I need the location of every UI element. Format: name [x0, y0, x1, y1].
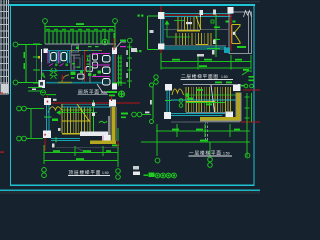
legend green dash [144, 175, 149, 176]
D red tick below plan [117, 141, 118, 147]
svg-text:1:50: 1:50 [221, 75, 228, 79]
svg-text:二层楼梯平面图: 二层楼梯平面图 [181, 73, 218, 80]
plant symbol [50, 68, 57, 79]
B annex outline grey [229, 12, 252, 54]
B inner section line green [215, 14, 217, 57]
B annex red drop [230, 15, 232, 51]
B column NW [158, 12, 165, 19]
D bottom landing edge yellow [62, 133, 90, 135]
B top wall cyan pair [164, 13, 232, 16]
cyan pipe beside [82, 55, 84, 83]
column A east-top [112, 48, 117, 55]
drain bubble cross [119, 93, 124, 94]
B lower landing edge yellow [196, 44, 208, 46]
D axis bubble west-bottom pair [17, 136, 22, 141]
B dim texts [172, 59, 242, 67]
toilet fixture 1 [51, 53, 57, 61]
C bottom landing white line [186, 111, 232, 113]
C dim line 1 [141, 124, 250, 156]
C column NW [165, 84, 172, 91]
B left wall cyan pair [160, 19, 163, 44]
mid partition wall teal [42, 70, 84, 72]
B bottom wall grey [164, 45, 226, 47]
top wall A [45, 43, 116, 45]
D yellow wall vertical [112, 107, 116, 141]
B landing edge yellow [177, 30, 200, 32]
B bottom wall cyan pair [164, 47, 226, 49]
B inner green square [211, 20, 214, 23]
D door swing yellow M [48, 107, 63, 113]
status strip background [0, 191, 260, 194]
partition grey lines mid [71, 51, 80, 70]
C axis bubble below 1 [155, 158, 160, 163]
flush arrows green cluster [71, 46, 102, 76]
C yellow wall vertical [237, 93, 241, 121]
B column SW [158, 44, 165, 50]
toilet fixture east 2 [103, 67, 111, 74]
B dim line 1 below [161, 53, 251, 70]
C left dim bubble top [150, 83, 154, 87]
B white door post [200, 15, 202, 25]
red tick at entry [62, 75, 63, 80]
D column SW red dot [44, 134, 45, 136]
border frame bottom [11, 184, 255, 186]
stall band background [48, 51, 71, 64]
D mid landing edge yellow [62, 120, 90, 122]
D red stub above column [47, 96, 49, 100]
B right small green cluster [249, 76, 255, 81]
dimension texts A segments [46, 29, 113, 30]
floor drain cross [42, 92, 45, 93]
column A east-bottom [112, 83, 117, 90]
C dim texts [172, 129, 240, 142]
stall band top rail [48, 50, 103, 52]
axis bubble A west-top [13, 42, 18, 47]
drain leader bubble below A [119, 91, 125, 97]
dimension line A segments [45, 31, 115, 44]
D dim texts [53, 150, 111, 160]
toilet fixture east 3 [103, 79, 111, 86]
green leader text A [120, 40, 126, 42]
green line east of band [112, 82, 126, 84]
svg-text:一层楼梯平面: 一层楼梯平面 [189, 150, 221, 157]
D grey diagonal [76, 148, 84, 152]
dims below-left A [28, 88, 42, 92]
C bottom wall cyan pair [171, 114, 225, 116]
east wall cyan pair [113, 54, 116, 83]
white leader polyline to drain note [97, 84, 107, 93]
east dim bubble [128, 38, 133, 43]
C column NE [233, 84, 241, 91]
C red line to edge [243, 89, 260, 91]
women side partition 1 [92, 53, 110, 55]
sheet background [0, 0, 260, 194]
B inner white ticks [213, 40, 216, 45]
east inner dim ladder [118, 55, 123, 86]
C inner bubble pair [179, 99, 183, 103]
B hose-reel yellow sigma [232, 25, 240, 44]
D left wall cyan pair [47, 105, 50, 131]
D column NE [109, 100, 116, 107]
D column NW red dot [47, 101, 48, 103]
east outer dim line [127, 44, 132, 88]
D column SE white [104, 135, 111, 142]
B annex door white M [244, 11, 252, 18]
D white tick on section [92, 103, 95, 107]
drawing index table rungs [0, 5, 9, 94]
D wall green tick [44, 116, 52, 118]
legend white glyph row 1 [133, 166, 139, 170]
title underline B [181, 78, 234, 80]
legend white glyph row 2 [133, 172, 140, 176]
dim text below-left [32, 89, 36, 91]
title underline C [189, 155, 233, 157]
D yellow wall outline [111, 107, 116, 141]
B flight direction arrow [165, 21, 190, 38]
C tread break diagonal white [211, 85, 215, 112]
C green text on treads [196, 89, 203, 91]
D bottom wall cyan pair [51, 139, 80, 141]
east wall red pipe [113, 54, 115, 83]
C direction arrow 2 [186, 102, 225, 104]
B up label [186, 22, 192, 24]
drawing index filled cell [1, 84, 8, 93]
D green marks right [112, 113, 128, 147]
B annex cyan block [224, 48, 230, 54]
C left dim text [150, 100, 152, 105]
C yellow wall outline [200, 93, 241, 122]
title underline D [68, 174, 110, 176]
C left wall cyan pair [167, 91, 170, 113]
border frame top [9, 4, 256, 6]
left wall A [41, 49, 43, 62]
C green marks above treads [215, 82, 222, 84]
D top wall cyan pair [61, 105, 110, 107]
red waste pipe vertical [84, 51, 86, 83]
yellow dot near left wall [38, 56, 40, 59]
section label 2-2 bottom [136, 50, 138, 52]
green stem above red pipe [113, 33, 115, 38]
C NE note circles [244, 84, 248, 88]
C top wall grey [183, 84, 238, 86]
bottom wall olive segment [58, 82, 72, 83]
B annex green dots above [226, 21, 229, 23]
room label text [150, 30, 154, 33]
red mark left edge [0, 152, 4, 153]
stall side rails cyan [50, 51, 70, 63]
D bottom wall green dash [55, 137, 57, 143]
drawing index table verticals [1, 0, 9, 94]
C axis bubble pair west [132, 112, 137, 117]
B red riser vertical [160, 6, 162, 57]
D yellow bar bottom [90, 141, 116, 145]
B right green note flag [242, 71, 252, 75]
green dash below drain [46, 94, 56, 95]
B sigma white dot [233, 32, 236, 35]
legend symbol circle 4 [172, 173, 177, 178]
svg-text:顶层楼梯平面: 顶层楼梯平面 [69, 169, 101, 176]
white leader diagonal A [115, 42, 126, 49]
red mark left edge 2 [0, 93, 3, 94]
section label 2-2 top [138, 15, 140, 17]
C grey dashed verticals below [206, 121, 208, 141]
D white tick below wall [52, 144, 55, 148]
C half-landing cyan line [171, 99, 236, 101]
toilet fixture east 1 [103, 56, 111, 63]
B annex green marks [237, 46, 246, 48]
C column SW [164, 112, 171, 119]
C column SE [226, 112, 234, 120]
B annex column [228, 7, 234, 14]
top window edge line [0, 1, 260, 2]
legend symbol circle 3 [166, 173, 171, 178]
D green step count text [52, 119, 58, 122]
D direction arrow [57, 111, 97, 115]
D green section vertical [93, 100, 95, 132]
C red line right of plan [241, 121, 260, 123]
stall door swing 1 [49, 64, 53, 67]
stall door swing 2 [60, 64, 64, 67]
east dim texts [126, 50, 128, 55]
C grey bottom line [171, 121, 240, 123]
C yellow wall horizontal [200, 117, 241, 121]
axis bubble A-right [113, 19, 118, 24]
C inner green text [206, 104, 212, 106]
C axis label text [145, 112, 150, 114]
D white riser line [108, 116, 110, 140]
legend green text [149, 173, 155, 178]
entry door olive arc [62, 75, 69, 82]
B tread break diagonal [196, 16, 201, 30]
legend symbol circle 1 [155, 173, 160, 178]
women side partition 3 [92, 76, 110, 78]
D top wall green line [62, 109, 92, 111]
C axis leader west [142, 114, 151, 116]
drain symbol bubble above plan [102, 39, 108, 45]
D axis bubble pair below-left [42, 168, 47, 173]
B upper flight treads yellow [178, 17, 200, 30]
B landing edge grey [164, 29, 228, 31]
wash basin box [39, 80, 46, 88]
svg-text:1:50: 1:50 [223, 152, 230, 156]
D grey outline bottom [56, 147, 118, 149]
D column NW [44, 98, 51, 105]
B inner green tick [214, 39, 220, 41]
svg-text:1:50: 1:50 [102, 171, 109, 175]
D left stringer yellow [61, 104, 63, 108]
B bottom green dim stub [207, 48, 220, 50]
B axis bubble pair below-left [154, 75, 158, 79]
stall partitions magenta [48, 51, 59, 64]
plant symbol left [41, 73, 45, 78]
B room label below wall [197, 54, 204, 57]
C right dim ladder [245, 93, 252, 157]
C direction arrow 1 [185, 93, 236, 97]
stall band olive segment [70, 50, 102, 52]
D dim line 1 [44, 128, 118, 167]
C up label green [187, 98, 193, 100]
basin detail [40, 82, 43, 86]
border frame right [253, 5, 255, 187]
grey partition vertical east [89, 54, 91, 83]
dimension text A total [76, 23, 84, 25]
B lower flight treads yellow [176, 33, 211, 45]
D white tick above door [53, 99, 57, 101]
green text below A column [107, 91, 117, 93]
B inner green dash [214, 27, 220, 29]
section line 2-2 [148, 16, 159, 50]
legend symbol circle 2 [161, 173, 166, 178]
D axis bubble pair below-right [116, 169, 121, 174]
C treads yellow [186, 87, 231, 112]
D white tick mid [58, 128, 61, 131]
B top wall white ticks [200, 10, 204, 15]
magenta dash A east [120, 46, 126, 47]
axis bubble A-left [43, 19, 48, 24]
C door arc yellow M [172, 89, 184, 95]
D red stub above NE column [111, 96, 113, 101]
floor drain symbol [40, 90, 45, 95]
axis leader lines west [18, 44, 42, 83]
door swing green dots [55, 64, 58, 67]
sheet trim line bottom [0, 189, 260, 191]
bottom wall teal band [46, 82, 102, 84]
toilet fixture 2 [61, 53, 67, 61]
title underline A [78, 94, 109, 96]
axis bubble A west-bottom [13, 80, 18, 85]
squat pan fixtures [78, 54, 98, 79]
border frame left [10, 5, 12, 187]
column A top-left [44, 49, 49, 54]
vertical dim text west [24, 52, 26, 58]
D axis leaders west [27, 109, 45, 139]
women side partition 2 [92, 64, 110, 66]
C axis bubble right [245, 153, 250, 158]
partition boxes mid grey [72, 45, 79, 52]
C wall green tick [165, 99, 172, 101]
C left dim bubble bottom [150, 120, 154, 124]
extra green fixture marks [71, 60, 96, 79]
D landing pink block [102, 136, 108, 143]
D landing strip white [80, 132, 108, 137]
C half-landing yellow segment [186, 100, 215, 102]
D tread break yellow diagonal [77, 104, 90, 122]
D axis bubble west-top pair [17, 106, 22, 111]
red pipe above east column [113, 38, 115, 50]
dimension line A total [45, 24, 115, 48]
D column SW [43, 131, 51, 139]
D treads yellow [62, 108, 90, 134]
D section cut green squiggle [99, 121, 107, 123]
C axis bubble below 2 pair [208, 157, 213, 162]
hall label text [131, 48, 137, 52]
D red below SW column [44, 138, 46, 151]
D red line top [48, 102, 140, 104]
B top wall red line [164, 14, 232, 16]
C left dim line [152, 87, 154, 119]
